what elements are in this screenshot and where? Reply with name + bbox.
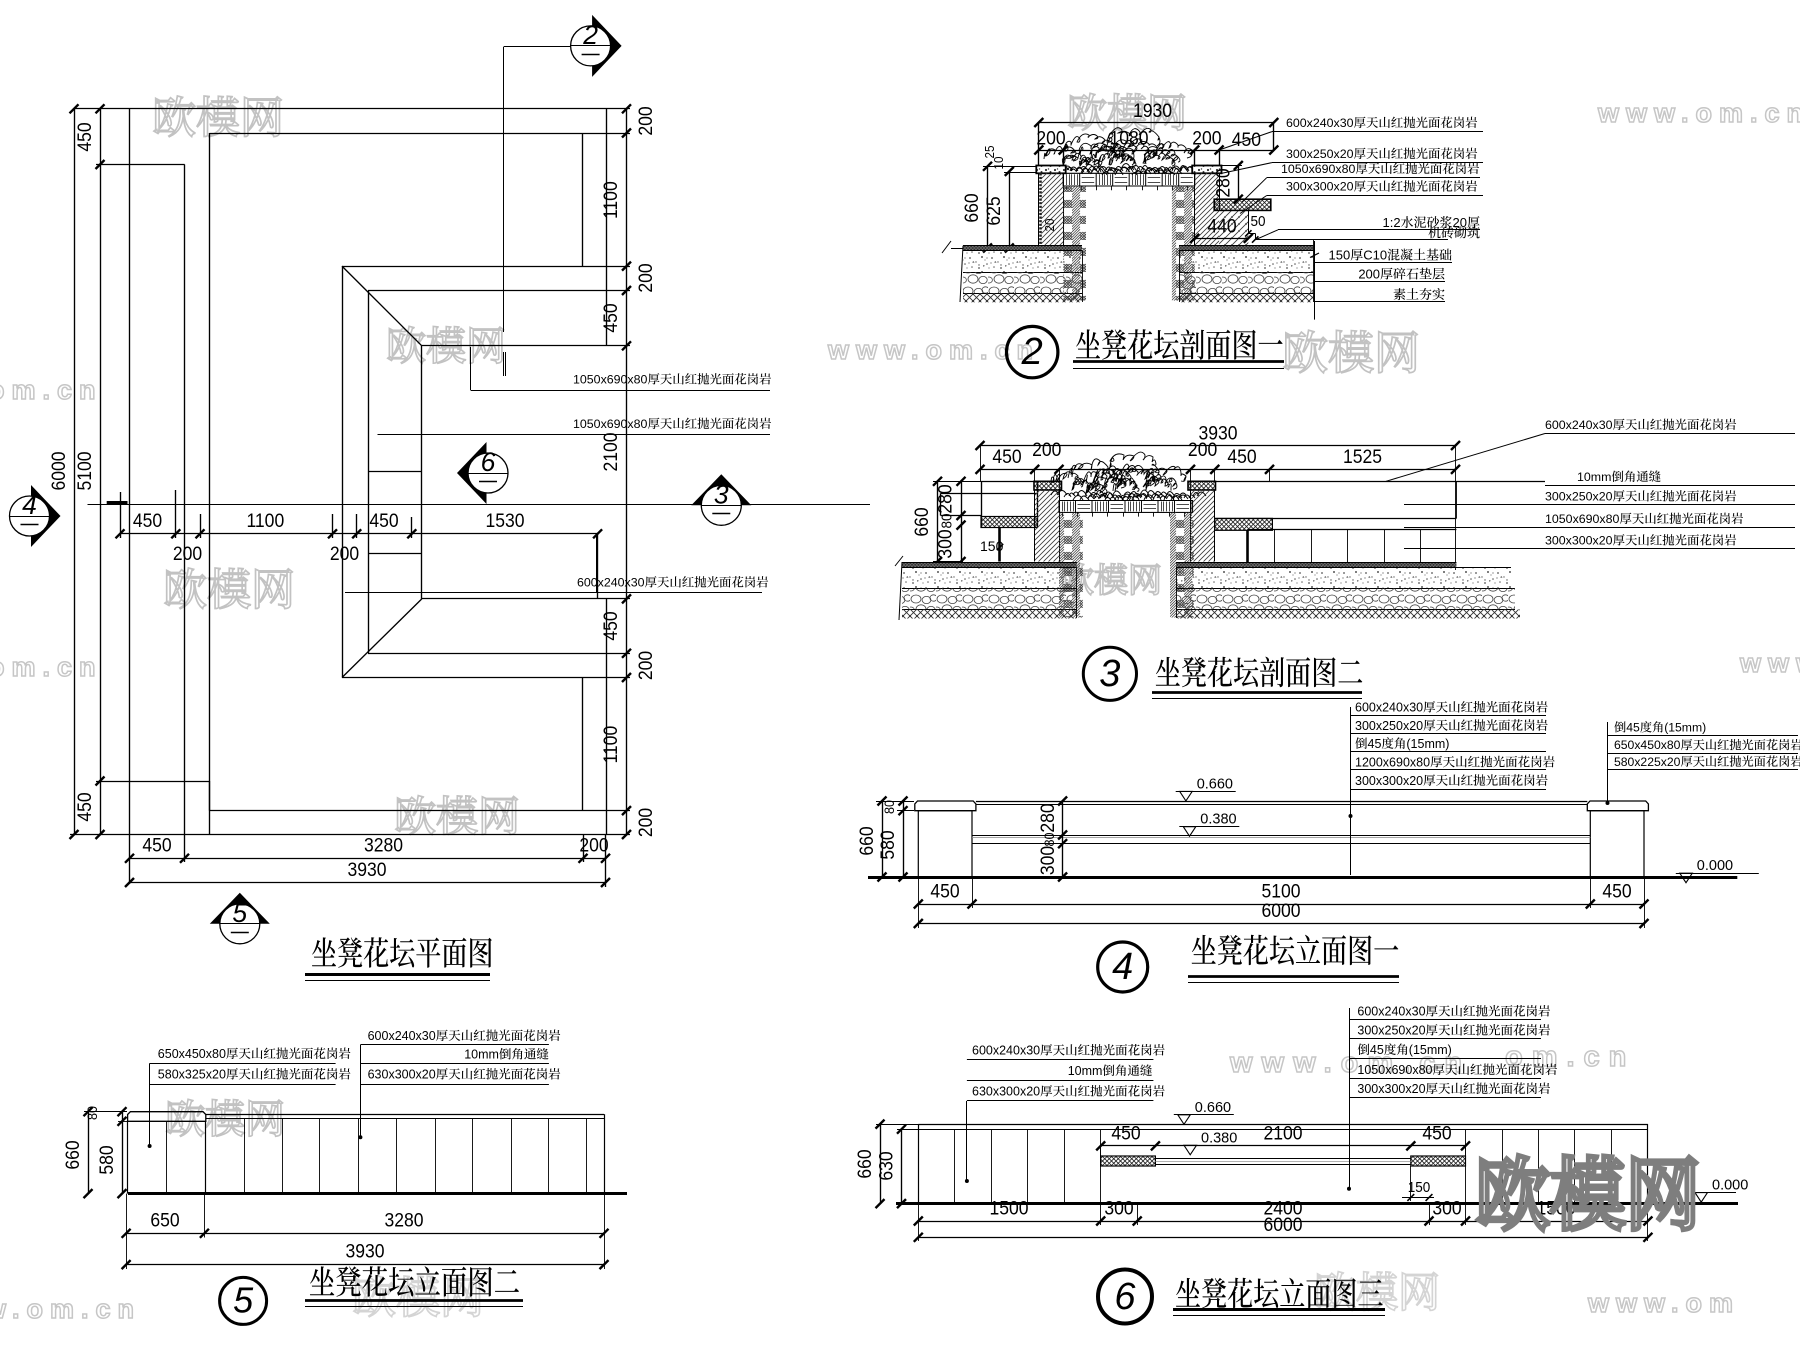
svg-text:0.000: 0.000 [1712,1178,1748,1194]
svg-text:660: 660 [61,1140,83,1169]
svg-text:150: 150 [1408,1179,1431,1196]
svg-text:45: 45 [1368,737,1382,751]
svg-text:3: 3 [1099,653,1120,695]
svg-text:600x240x30: 600x240x30 [368,1029,436,1043]
svg-text:4: 4 [1112,946,1133,988]
svg-text:450: 450 [992,445,1021,467]
svg-text:150: 150 [1329,248,1351,263]
svg-text:660: 660 [960,193,982,222]
svg-text:1930: 1930 [1133,99,1172,121]
svg-text:0.380: 0.380 [1201,1130,1237,1146]
svg-text:450: 450 [1111,1122,1140,1144]
svg-text:3280: 3280 [384,1209,423,1231]
svg-text:200: 200 [634,651,656,680]
svg-text:300x300x20: 300x300x20 [1286,180,1354,194]
svg-text:1200x690x80: 1200x690x80 [1355,755,1430,769]
svg-text:80: 80 [881,800,897,814]
svg-text:3: 3 [714,479,729,509]
svg-text:4: 4 [22,490,37,520]
svg-text:630x300x20: 630x300x20 [368,1068,436,1082]
svg-text:200: 200 [1036,127,1065,149]
svg-text:600x240x30: 600x240x30 [972,1044,1040,1058]
svg-text:80: 80 [84,1106,100,1120]
svg-text:20: 20 [1042,218,1057,231]
svg-text:580x225x20: 580x225x20 [1614,755,1681,769]
svg-text:1100: 1100 [599,726,621,764]
svg-text:(15mm): (15mm) [1406,737,1449,751]
svg-text:6: 6 [481,447,496,477]
svg-text:600x240x30: 600x240x30 [1286,116,1354,130]
svg-text:300x250x20: 300x250x20 [1286,147,1354,161]
svg-text:2: 2 [1021,331,1043,373]
svg-text:6: 6 [1114,1276,1136,1318]
svg-text:600x240x30: 600x240x30 [1545,418,1613,432]
svg-text:200: 200 [1192,127,1221,149]
svg-text:2100: 2100 [599,432,621,471]
svg-text:6000: 6000 [1263,1213,1302,1235]
svg-text:om.cn: om.cn [0,375,103,405]
svg-text:300: 300 [1104,1197,1133,1219]
svg-text:300: 300 [1432,1197,1461,1219]
svg-text:1500: 1500 [989,1197,1028,1219]
svg-text:450: 450 [930,880,959,902]
svg-text:450: 450 [599,303,621,332]
svg-text:1050x690x80: 1050x690x80 [1357,1063,1432,1077]
svg-text:1050x690x80: 1050x690x80 [573,373,648,387]
svg-text:www.o: www.o [1739,648,1800,678]
svg-text:10mm: 10mm [464,1048,499,1062]
svg-text:200: 200 [173,542,202,564]
svg-text:10mm: 10mm [1068,1064,1103,1078]
svg-text:630: 630 [875,1151,897,1180]
svg-text:2: 2 [582,20,598,50]
svg-text:5: 5 [232,898,247,928]
svg-text:5100: 5100 [73,451,95,490]
svg-text:600x240x30: 600x240x30 [1355,701,1423,715]
svg-text:450: 450 [1602,880,1631,902]
svg-text:(15mm): (15mm) [1664,721,1706,735]
svg-text:2100: 2100 [1263,1122,1302,1144]
svg-text:1050x690x80: 1050x690x80 [1545,512,1620,526]
svg-text:50: 50 [1251,213,1266,230]
svg-text:660: 660 [910,507,932,536]
svg-text:1050x690x80: 1050x690x80 [573,417,648,431]
svg-text:650: 650 [150,1209,179,1231]
svg-text:0.660: 0.660 [1197,776,1233,792]
svg-text:440: 440 [1207,215,1236,237]
svg-text:450: 450 [1422,1122,1451,1144]
svg-text:200: 200 [1032,438,1061,460]
svg-text:200: 200 [634,808,656,837]
svg-text:580: 580 [876,830,898,859]
svg-text:450: 450 [1227,445,1256,467]
svg-text:1050x690x80: 1050x690x80 [1281,162,1356,176]
svg-text:450: 450 [133,509,162,531]
svg-text:0.660: 0.660 [1195,1100,1231,1116]
svg-text:660: 660 [855,826,877,855]
svg-text:0.380: 0.380 [1200,812,1236,828]
svg-text:650x450x80: 650x450x80 [1614,738,1681,752]
svg-text:300x300x20: 300x300x20 [1545,534,1613,548]
svg-text:300x250x20: 300x250x20 [1357,1024,1425,1038]
svg-text:450: 450 [1232,128,1261,150]
svg-text:280: 280 [934,484,956,513]
svg-text:45: 45 [1370,1043,1384,1057]
svg-text:450: 450 [599,611,621,640]
svg-text:450: 450 [142,834,171,856]
svg-text:80: 80 [1041,833,1057,847]
svg-text:630x300x20: 630x300x20 [972,1085,1040,1099]
svg-text:650x450x80: 650x450x80 [158,1047,226,1061]
svg-text:3930: 3930 [345,1240,384,1262]
svg-text:300: 300 [1036,846,1058,875]
svg-text:om.cn: om.cn [1505,1041,1635,1073]
svg-text:6000: 6000 [47,451,69,490]
svg-text:www.om: www.om [1587,1288,1740,1318]
svg-text:580x325x20: 580x325x20 [158,1068,226,1082]
svg-text:300x300x20: 300x300x20 [1357,1082,1425,1096]
svg-text:3930: 3930 [347,858,386,880]
svg-text:5: 5 [233,1280,254,1321]
svg-text:660: 660 [853,1149,875,1178]
svg-text:280: 280 [1036,803,1058,832]
svg-text:(15mm): (15mm) [1409,1043,1452,1057]
svg-text:300x250x20: 300x250x20 [1545,490,1613,504]
svg-text:1525: 1525 [1343,445,1382,467]
svg-text:450: 450 [73,122,95,151]
svg-text:600x240x30: 600x240x30 [1357,1005,1425,1019]
svg-text:200: 200 [1358,267,1380,282]
svg-text:6000: 6000 [1261,899,1300,921]
svg-text:om.cn: om.cn [0,652,103,682]
svg-text:580: 580 [95,1145,117,1174]
svg-text:200: 200 [634,263,656,292]
svg-text:200: 200 [634,106,656,135]
svg-text:450: 450 [369,509,398,531]
svg-text:C10: C10 [1363,248,1387,263]
svg-text:45: 45 [1626,721,1640,735]
svg-text:1:2: 1:2 [1383,215,1401,230]
svg-text:200: 200 [1188,438,1217,460]
svg-text:w.om.cn: w.om.cn [0,1294,141,1324]
svg-text:625: 625 [982,196,1004,225]
svg-text:300x250x20: 300x250x20 [1355,719,1423,733]
svg-text:3280: 3280 [364,834,403,856]
svg-text:300x300x20: 300x300x20 [1355,774,1423,788]
svg-text:200: 200 [330,542,359,564]
svg-text:10: 10 [991,156,1006,169]
svg-text:www.om.cn: www.om.cn [1597,98,1800,128]
svg-text:1100: 1100 [246,509,284,531]
svg-text:1100: 1100 [599,181,621,219]
svg-text:0.000: 0.000 [1697,858,1733,874]
svg-text:600x240x30: 600x240x30 [577,576,645,590]
svg-text:1530: 1530 [485,509,524,531]
svg-text:450: 450 [73,792,95,821]
svg-text:300: 300 [934,529,956,558]
svg-text:10mm: 10mm [1577,470,1611,484]
